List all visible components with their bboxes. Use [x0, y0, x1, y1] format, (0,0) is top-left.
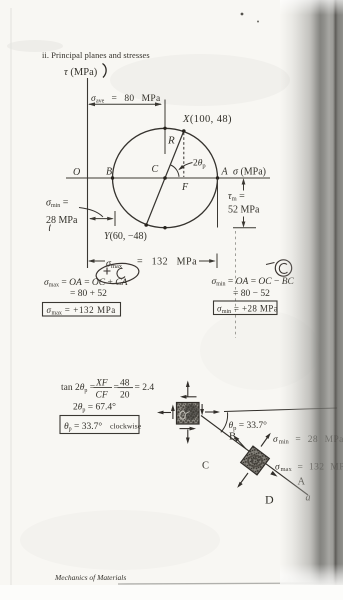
2theta_p arc	[171, 165, 179, 177]
sigma_max arrowhead on a-axis	[270, 471, 277, 477]
node B	[111, 176, 114, 179]
sigma_ave dimension line	[89, 103, 161, 105]
tau axis	[87, 78, 89, 268]
radius line Y to X	[146, 131, 184, 225]
svg-text:ii. Principal planes and stres: ii. Principal planes and stresses	[42, 51, 150, 60]
svg-text:28 MPa: 28 MPa	[46, 215, 78, 226]
dashed line X to F	[183, 133, 185, 178]
svg-text:clockwise: clockwise	[110, 422, 142, 431]
faint dashed vertical	[235, 231, 237, 338]
dim right tick	[164, 100, 166, 155]
svg-text:τm =: τm =	[228, 191, 245, 203]
circled C annotation right	[275, 260, 291, 276]
sigma_min arrow down-left	[239, 473, 249, 486]
handwritten paren mark	[103, 64, 107, 78]
sigma_min double arrow	[90, 218, 113, 220]
svg-text:2θp = 67.4°: 2θp = 67.4°	[73, 402, 116, 414]
svg-text:tan 2θp =: tan 2θp =	[61, 383, 95, 394]
node Y	[144, 223, 148, 227]
specks	[241, 13, 244, 16]
element1 top shear arrow (left)	[182, 396, 197, 398]
element1 right tension arrow	[205, 411, 218, 413]
element1 left tension arrow	[159, 412, 171, 414]
svg-text:= 2.4: = 2.4	[135, 383, 155, 393]
circle bottom dot	[163, 226, 166, 229]
2theta_p leader arrow	[180, 163, 193, 170]
svg-text:48: 48	[120, 379, 130, 389]
curved leader	[79, 208, 103, 218]
svg-text:CF: CF	[96, 391, 108, 401]
svg-text:A: A	[221, 167, 229, 178]
boxed theta result	[60, 416, 139, 434]
svg-text:X(100, 48): X(100, 48)	[182, 114, 232, 125]
element1 bottom shear arrow (right)	[180, 428, 195, 430]
element1 bottom tension arrow	[187, 430, 189, 443]
theta_p arc	[221, 412, 228, 432]
svg-text:Mechanics of Materials: Mechanics of Materials	[54, 573, 126, 582]
Mohr circle	[113, 128, 218, 227]
B tick	[114, 211, 116, 226]
sigma_min arrow up-right	[261, 435, 270, 447]
tau_m dimension right side	[217, 179, 219, 228]
dim arrow right	[155, 102, 162, 106]
svg-text:R: R	[167, 135, 175, 147]
diagonal a-axis line	[201, 416, 308, 496]
handwritten O inside	[180, 411, 186, 419]
node X	[182, 129, 186, 133]
bottom page edge	[118, 583, 334, 584]
svg-text:F: F	[181, 182, 189, 193]
svg-text:D: D	[265, 493, 274, 507]
sigma axis	[66, 177, 270, 179]
svg-text:B: B	[229, 432, 236, 443]
circle top dot	[163, 127, 166, 130]
rotated element square	[241, 446, 270, 475]
svg-text:20: 20	[120, 391, 130, 401]
handwritten i mark	[49, 225, 50, 232]
svg-text:XF: XF	[95, 379, 108, 389]
element1 left shear arrow (up)	[172, 407, 174, 420]
boxed result left	[43, 303, 121, 317]
svg-text:B: B	[106, 167, 112, 178]
node A	[216, 176, 219, 179]
sigma_max bottom dimension	[89, 260, 105, 262]
svg-text:= 132 MPa: = 132 MPa	[137, 257, 197, 268]
svg-text:= 80 + 52: = 80 + 52	[70, 289, 107, 299]
node C center	[163, 176, 167, 180]
svg-text:σ (MPa): σ (MPa)	[233, 167, 266, 178]
svg-text:O: O	[73, 167, 80, 178]
sigma_max arrow up-left	[235, 437, 246, 449]
svg-text:C: C	[152, 164, 159, 175]
element 1 square	[177, 403, 200, 425]
handwritten plus C	[104, 268, 111, 275]
dim arrow left	[88, 102, 95, 106]
element1 right shear arrow (down)	[201, 404, 203, 414]
svg-text:52 MPa: 52 MPa	[228, 205, 260, 216]
element1 top tension arrow	[187, 383, 189, 397]
faint left page line	[10, 8, 12, 586]
boxed result right	[214, 301, 278, 315]
horizontal reference line	[224, 408, 337, 412]
svg-text:τ (MPa): τ (MPa)	[64, 67, 98, 78]
svg-text:Y(60, −48): Y(60, −48)	[104, 231, 147, 242]
svg-text:= 80 − 52: = 80 − 52	[233, 289, 270, 299]
handwritten oval annotation	[95, 261, 140, 286]
svg-text:C: C	[202, 461, 209, 472]
right edge book shading	[280, 0, 343, 585]
